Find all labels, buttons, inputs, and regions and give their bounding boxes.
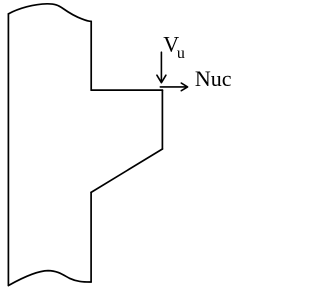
column right face below corbel	[90, 192, 92, 282]
top break wave	[8, 4, 91, 22]
bottom break wave	[8, 271, 91, 286]
arrow Vu shaft	[160, 52, 162, 81]
arrow Nuc head	[181, 83, 187, 91]
svg-text:Nuc: Nuc	[195, 66, 232, 91]
corbel sloped bottom	[91, 149, 162, 192]
column right face above corbel	[90, 21, 92, 90]
arrow Nuc shaft	[160, 86, 186, 88]
corbel top edge	[91, 89, 162, 91]
svg-text:u: u	[177, 45, 185, 62]
column left face wire	[7, 14, 9, 286]
arrow Vu head	[157, 75, 166, 83]
corbel outer face	[161, 90, 163, 149]
